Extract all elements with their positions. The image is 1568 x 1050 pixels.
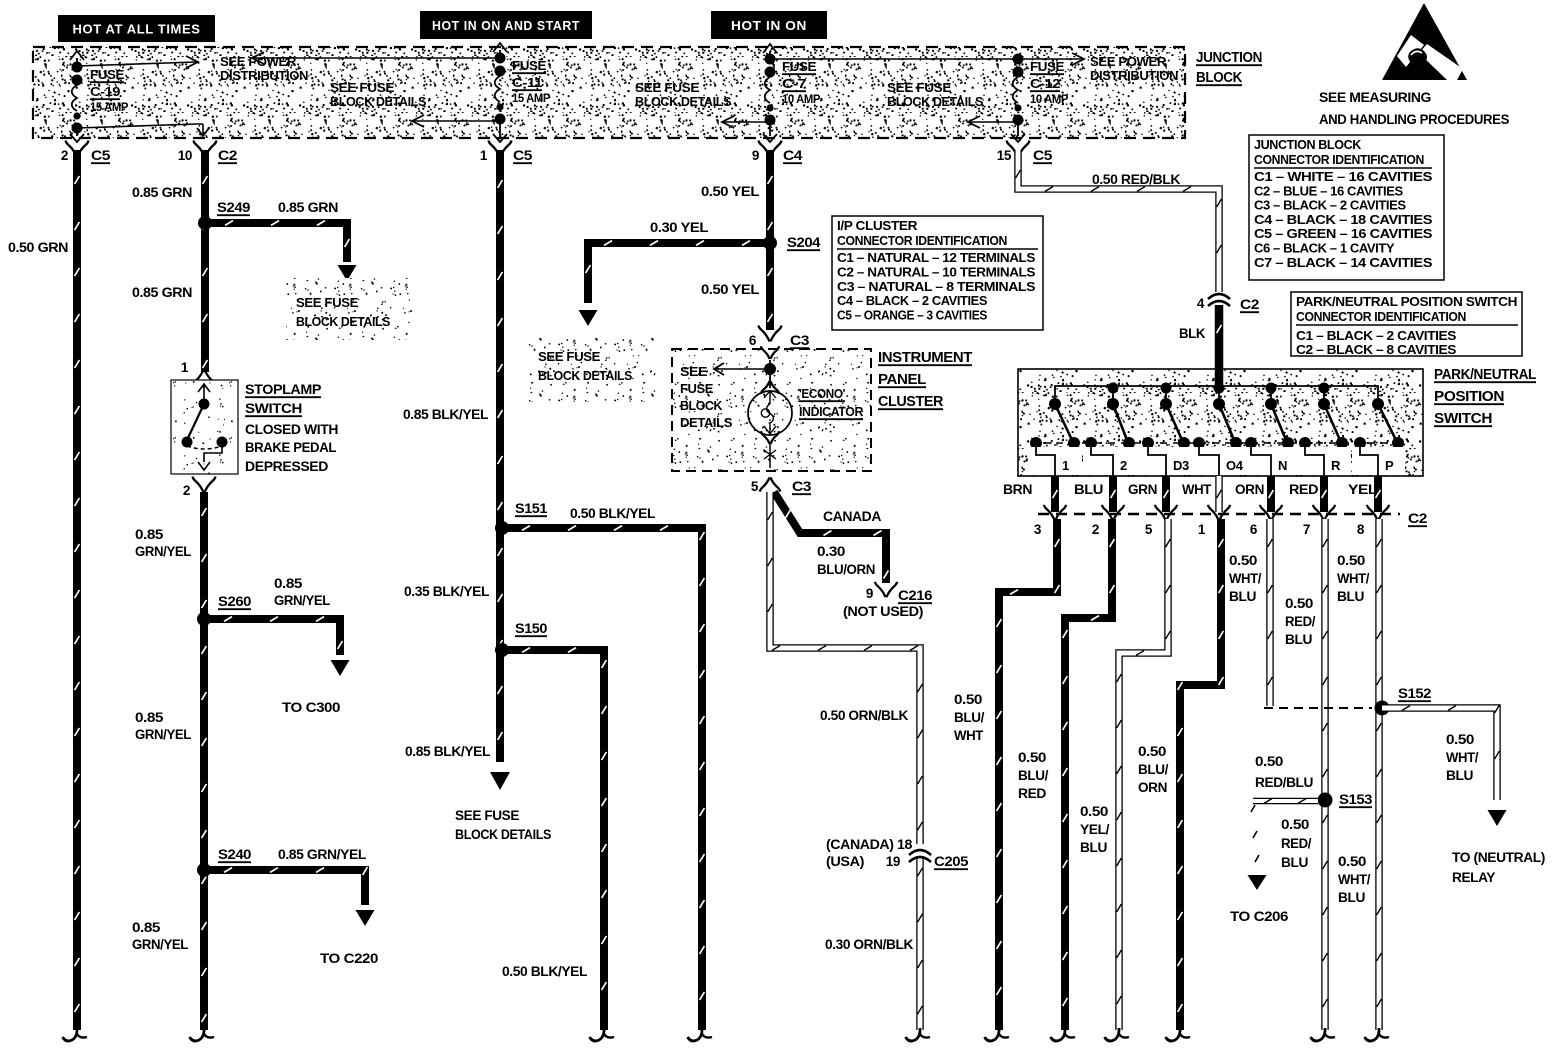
label 0.50 BLU/WHT [954,692,985,743]
wire BLU [1111,476,1116,512]
svg-text:RELAY: RELAY [1452,870,1495,885]
svg-text:1: 1 [1198,522,1206,537]
svg-text:FUSE: FUSE [90,68,124,82]
wire BLK [1217,305,1222,369]
svg-text:SEE FUSE: SEE FUSE [296,295,359,310]
connector C2 pin 7 [1303,505,1335,537]
svg-text:BLU: BLU [1080,840,1107,855]
svg-text:0.30 ORN/BLK: 0.30 ORN/BLK [825,937,914,952]
connector C2 pin 8 [1357,505,1389,537]
svg-text:I/P CLUSTER: I/P CLUSTER [837,218,918,233]
svg-text:0.85 GRN/YEL: 0.85 GRN/YEL [278,847,366,862]
svg-text:0.85: 0.85 [135,710,164,725]
svg-text:BLU: BLU [1338,890,1365,905]
svg-text:C2 – BLUE – 16 CAVITIES: C2 – BLUE – 16 CAVITIES [1254,183,1404,198]
svg-text:BLU/: BLU/ [1138,762,1169,777]
svg-text:C3 – BLACK – 2 CAVITIES: C3 – BLACK – 2 CAVITIES [1254,198,1406,213]
svg-text:10 AMP: 10 AMP [1030,94,1069,106]
svg-text:BLOCK DETAILS: BLOCK DETAILS [455,827,551,842]
svg-text:0.50: 0.50 [1338,854,1366,869]
splice S260 [197,594,251,626]
svg-text:0.50: 0.50 [1255,754,1283,769]
label 0.85 GRN (branch) [278,200,338,215]
svg-text:SEE FUSE: SEE FUSE [887,81,951,95]
svg-text:C6 – BLACK – 1 CAVITY: C6 – BLACK – 1 CAVITY [1254,241,1395,256]
svg-text:15 AMP: 15 AMP [512,93,551,105]
svg-text:CONNECTOR IDENTIFICATION: CONNECTOR IDENTIFICATION [1296,309,1466,324]
svg-text:0.50: 0.50 [1229,553,1257,568]
svg-text:C3: C3 [790,333,810,348]
svg-text:S260: S260 [218,594,251,609]
svg-text:C1 – NATURAL – 12 TERMINALS: C1 – NATURAL – 12 TERMINALS [837,250,1036,265]
label 0.85 GRN (upper) [132,185,192,200]
svg-text:1: 1 [480,148,488,163]
fuse C-12 10 AMP [1011,54,1069,143]
label BRN [1003,482,1032,497]
svg-text:C1 – BLACK – 2 CAVITIES: C1 – BLACK – 2 CAVITIES [1296,328,1457,343]
svg-text:DISTRIBUTION: DISTRIBUTION [220,69,308,83]
svg-text:RED/BLU: RED/BLU [1255,775,1313,790]
svg-text:RED: RED [1018,786,1047,801]
wire 0.85 GRN/YEL branch from S260 to C300 [204,617,350,676]
connector C5 pin 15 [997,141,1053,164]
switch position P [1352,398,1405,476]
connector C2 pin 3 [1034,505,1066,537]
label 0.50 ORN/BLK [820,708,909,723]
svg-text:C-7: C-7 [782,77,807,91]
svg-text:1: 1 [1062,458,1069,473]
wire 0.50 RED/BLK (white) from C5 pin 15 to C2 pin 4 [1016,150,1222,292]
note SEE FUSE BLOCK DETAILS (in cluster) [680,365,732,430]
svg-text:6: 6 [749,333,757,348]
svg-text:0.50 GRN: 0.50 GRN [8,240,68,255]
svg-text:0.50 BLK/YEL: 0.50 BLK/YEL [502,964,587,979]
label SEE MEASURING AND HANDLING PROCEDURES [1319,89,1509,127]
park/neutral position switch label [1434,367,1537,427]
wire 0.85 BLK/YEL (main vertical) [490,150,510,790]
svg-text:C4 – BLACK – 18 CAVITIES: C4 – BLACK – 18 CAVITIES [1254,212,1433,227]
label CANADA [823,509,882,524]
svg-text:C2 – BLACK – 8 CAVITIES: C2 – BLACK – 8 CAVITIES [1296,342,1457,357]
svg-text:TO (NEUTRAL): TO (NEUTRAL) [1452,850,1545,865]
svg-text:DISTRIBUTION: DISTRIBUTION [1090,69,1178,83]
svg-text:S204: S204 [787,235,821,250]
svg-text:15 AMP: 15 AMP [90,102,129,114]
svg-text:0.50 BLK/YEL: 0.50 BLK/YEL [570,506,655,521]
svg-text:SEE FUSE: SEE FUSE [635,81,699,95]
svg-text:C3 – NATURAL – 8 TERMINALS: C3 – NATURAL – 8 TERMINALS [837,279,1036,294]
svg-text:5: 5 [1145,522,1153,537]
label SEE FUSE BLOCK DETAILS (band, left-middle) [330,81,426,109]
svg-text:0.85 GRN: 0.85 GRN [278,200,338,215]
svg-text:0.85: 0.85 [132,920,161,935]
svg-text:O4: O4 [1226,458,1244,473]
park/neutral position switch (stippled box) [1018,369,1423,476]
splice S151 [495,501,548,535]
label 0.30 YEL [650,220,708,235]
svg-text:S150: S150 [515,621,547,636]
svg-text:'ECONO': 'ECONO' [799,386,845,401]
wire 0.50 WHT/BLU (from N, white) [1268,519,1273,706]
svg-text:C7 – BLACK – 14 CAVITIES: C7 – BLACK – 14 CAVITIES [1254,255,1433,270]
instrument panel cluster label [878,350,973,410]
svg-text:SEE FUSE: SEE FUSE [538,349,601,364]
svg-text:C5 – ORANGE – 3 CAVITIES: C5 – ORANGE – 3 CAVITIES [837,308,988,323]
switch bus rail [1055,369,1378,404]
park/neutral position switch connector identification table [1291,292,1522,357]
fuse C-11 15 AMP [493,43,551,142]
header HOT IN ON [711,11,827,39]
svg-text:0.85: 0.85 [274,576,303,591]
svg-text:BLU: BLU [1281,855,1308,870]
header HOT IN ON AND START [420,11,592,39]
svg-text:BRAKE PEDAL: BRAKE PEDAL [245,439,337,455]
wire 0.50 WHT/BLU (from P, white) [1365,519,1390,1041]
svg-text:SEE POWER: SEE POWER [1090,55,1166,69]
svg-text:HOT AT ALL TIMES: HOT AT ALL TIMES [73,22,201,37]
label 0.50 RED/BLU (R wire upper) [1285,596,1316,647]
svg-text:C2: C2 [218,148,237,163]
connector C3 pin 6 [749,326,810,349]
svg-text:BLOCK DETAILS: BLOCK DETAILS [296,314,391,329]
svg-text:BLK: BLK [1179,326,1206,341]
label 0.50 BLU/RED [1018,750,1049,801]
svg-text:SEE FUSE: SEE FUSE [455,808,519,823]
svg-text:10: 10 [178,148,192,163]
connector C2 dashed line [1038,511,1427,526]
svg-text:2: 2 [1092,522,1099,537]
svg-text:0.50: 0.50 [1138,744,1166,759]
splice S249 [198,200,250,230]
svg-text:0.85 GRN: 0.85 GRN [132,185,192,200]
connector C5 pin 2 [61,141,111,164]
svg-text:POSITION: POSITION [1434,389,1504,405]
svg-text:0.50 ORN/BLK: 0.50 ORN/BLK [820,708,909,723]
svg-text:CANADA: CANADA [823,509,882,524]
label RED [1289,482,1319,497]
wire 0.50 BLU/ORN (from O4) [1166,519,1224,1041]
label SEE POWER DISTRIBUTION (right) [1090,55,1178,83]
svg-text:C-19: C-19 [90,85,121,99]
connector C2 pin 5 [1145,505,1177,537]
wire branch from S153 to C206 [1248,799,1319,890]
svg-text:S249: S249 [217,200,250,215]
svg-text:DEPRESSED: DEPRESSED [245,458,328,474]
svg-text:BLOCK DETAILS: BLOCK DETAILS [330,95,426,109]
wire 0.50 WHT/BLU branch from S152 to neutral relay [1382,705,1507,826]
svg-text:0.50: 0.50 [1080,804,1108,819]
switch position N [1243,383,1298,477]
svg-text:CONNECTOR IDENTIFICATION: CONNECTOR IDENTIFICATION [837,233,1007,248]
svg-text:R: R [1331,458,1341,473]
svg-text:FUSE: FUSE [512,59,546,73]
svg-text:0.85 BLK/YEL: 0.85 BLK/YEL [403,407,488,422]
svg-text:FUSE: FUSE [782,60,816,74]
svg-text:JUNCTION BLOCK: JUNCTION BLOCK [1254,137,1362,152]
svg-text:S151: S151 [515,501,548,516]
wire: fuse C-19 to SEE POWER DISTRIBUTION arrow [77,56,198,68]
connector C2 pin 10 [178,141,237,164]
svg-text:BLU: BLU [1074,482,1103,497]
junction block label [1196,50,1262,86]
svg-text:C5: C5 [513,148,533,163]
svg-text:YEL/: YEL/ [1080,822,1110,837]
wire 0.50 BLK/YEL branch from S151 [502,526,712,1041]
label 0.50 BLK/YEL (S151 branch) [570,506,655,521]
wire 0.50 GRN (left vertical) [63,150,88,1041]
svg-text:SEE: SEE [680,365,707,379]
svg-text:STOPLAMP: STOPLAMP [245,381,321,397]
svg-text:BLOCK DETAILS: BLOCK DETAILS [887,95,983,109]
label 0.50 YEL (lower) [701,282,759,297]
splice S240 [197,847,251,877]
label SEE POWER DISTRIBUTION (left) [220,55,308,83]
svg-text:(NOT USED): (NOT USED) [843,604,923,619]
svg-text:CONNECTOR IDENTIFICATION: CONNECTOR IDENTIFICATION [1254,152,1424,167]
wire 0.85 GRN (upper) [203,150,208,372]
svg-text:PARK/NEUTRAL: PARK/NEUTRAL [1434,367,1537,383]
svg-text:BLU: BLU [1337,589,1364,604]
wire: fuse C-19 lower arrow to connector 10/C2 [77,124,209,136]
svg-text:0.85 GRN: 0.85 GRN [132,285,192,300]
svg-text:GRN: GRN [1128,482,1157,497]
svg-text:DETAILS: DETAILS [680,416,732,430]
svg-text:C2: C2 [1240,297,1259,312]
wire 0.85 GRN/YEL branch from S240 to C220 [204,867,375,926]
label YEL [1348,482,1377,497]
label 0.50 YEL/BLU [1080,804,1110,855]
svg-text:C4: C4 [783,148,803,163]
svg-text:7: 7 [1303,522,1310,537]
svg-text:PARK/NEUTRAL POSITION SWITCH: PARK/NEUTRAL POSITION SWITCH [1296,294,1517,309]
connector C2 pin 2 [1092,505,1124,537]
wire: fuse C-11 to SEE POWER DISTRIBUTION (arrow left) [252,52,500,64]
cluster exit connector symbol [761,431,779,468]
label 0.30 BLU/ORN [817,544,875,577]
wire: fuse C-7 / C-12 to SEE POWER DISTRIBUTION (arrow right) [770,53,1084,65]
svg-text:WHT/: WHT/ [1338,872,1371,887]
wire branch from S150 [502,648,614,1041]
ECONO indicator lamp [748,381,792,435]
connector C2 pin 6 [1250,505,1282,537]
connector C2 pin 4 [1197,294,1259,312]
svg-text:C2 – NATURAL – 10 TERMINALS: C2 – NATURAL – 10 TERMINALS [837,264,1036,279]
svg-text:0.50: 0.50 [1285,596,1313,611]
stoplamp switch [171,380,238,474]
I/P cluster connector identification table [832,216,1043,330]
label TO C206 [1230,909,1289,924]
svg-text:ORN: ORN [1235,482,1264,497]
label BLK [1179,326,1206,341]
svg-text:BLOCK DETAILS: BLOCK DETAILS [635,95,731,109]
switch position 2 [1083,383,1140,477]
stoplamp switch pin 1 [181,360,216,386]
svg-text:BLU/: BLU/ [1018,768,1049,783]
svg-text:BLOCK: BLOCK [680,399,722,413]
svg-text:SWITCH: SWITCH [245,400,302,416]
svg-text:HOT IN ON AND START: HOT IN ON AND START [432,18,580,33]
svg-text:C5: C5 [1033,148,1053,163]
connector C216 pin 9 (NOT USED) [843,586,933,619]
svg-text:C2: C2 [1408,511,1427,526]
svg-text:BLOCK: BLOCK [1196,70,1243,86]
wire: fuse C-11 lower arrow left [412,115,500,127]
ESD warning triangle [1382,3,1467,80]
stoplamp switch label [245,381,338,474]
svg-text:S152: S152 [1398,686,1431,701]
svg-text:GRN/YEL: GRN/YEL [274,593,330,608]
svg-text:(USA): (USA) [826,854,864,869]
svg-text:ORN: ORN [1138,780,1167,795]
wire: fuse C-12 lower arrow left [968,116,1018,128]
wire BRN [1053,476,1058,512]
svg-text:6: 6 [1250,522,1258,537]
svg-text:FUSE: FUSE [1030,60,1064,74]
svg-text:BLU: BLU [1446,768,1473,783]
connector C2 pin 1 [1198,505,1230,537]
svg-text:C-12: C-12 [1030,77,1061,91]
svg-text:19: 19 [886,854,900,869]
arrow to SEE FUSE BLOCK DETAILS (in cluster) [714,363,768,375]
svg-text:C4 – BLACK – 2 CAVITIES: C4 – BLACK – 2 CAVITIES [837,293,988,308]
wire 0.50 YEL/BLU (white) [1105,519,1171,1041]
header HOT AT ALL TIMES [58,15,215,42]
svg-text:BLU/ORN: BLU/ORN [817,562,875,577]
wire 0.50 BLU/WHT [985,519,1060,1041]
junction block (dashed stippled band) [33,47,1185,138]
svg-text:(CANADA) 18: (CANADA) 18 [826,837,913,852]
label 0.85 GRN/YEL (1) [135,527,191,559]
fuse C-19 15 AMP [70,51,129,142]
svg-text:0.85: 0.85 [135,527,164,542]
label GRN [1128,482,1157,497]
label TO C220 [320,951,378,966]
label 0.50 WHT/BLU (P wire) [1337,553,1370,604]
svg-text:BLU: BLU [1229,589,1256,604]
wire 0.50 RED/BLU (from R, white) [1311,519,1336,1041]
svg-text:C5 – GREEN – 16 CAVITIES: C5 – GREEN – 16 CAVITIES [1254,226,1433,241]
switch position R [1297,383,1351,477]
svg-text:WHT: WHT [1182,482,1212,497]
svg-text:10 AMP: 10 AMP [782,94,821,106]
svg-text:15: 15 [997,148,1012,163]
svg-text:0.50 YEL: 0.50 YEL [701,282,759,297]
svg-text:GRN/YEL: GRN/YEL [135,727,191,742]
connector C5 pin 1 [480,141,533,164]
wire ORN [1269,476,1274,512]
svg-text:C5: C5 [91,148,111,163]
svg-text:YEL: YEL [1348,482,1377,497]
label 0.50 BLK/YEL (bottom) [502,964,587,979]
svg-text:S153: S153 [1339,792,1373,807]
splice S153 [1318,792,1373,808]
label 0.50 WHT/BLU (N wire) [1229,553,1262,604]
label 0.50 WHT/BLU (S152 branch) [1446,732,1479,783]
connector C4 pin 9 [752,141,803,164]
svg-text:9: 9 [866,586,873,601]
splice S152 [1264,686,1431,716]
label 0.50 RED/BLU (below S153) [1281,817,1312,870]
instrument panel cluster (dashed box) [672,349,871,471]
label SEE FUSE BLOCK DETAILS (band, center-right) [887,81,983,109]
svg-text:INSTRUMENT: INSTRUMENT [878,350,973,366]
svg-text:SWITCH: SWITCH [1434,411,1492,427]
note SEE FUSE BLOCK DETAILS (stippled, upper-left) [286,278,412,340]
label 0.85 GRN/YEL (3) [132,920,188,952]
svg-text:TO C206: TO C206 [1230,909,1289,924]
svg-text:AND HANDLING PROCEDURES: AND HANDLING PROCEDURES [1319,111,1509,127]
svg-text:WHT/: WHT/ [1337,571,1370,586]
label 0.30 ORN/BLK [825,937,914,952]
svg-text:4: 4 [1197,296,1205,311]
svg-text:JUNCTION: JUNCTION [1196,50,1262,66]
label WHT [1182,482,1212,497]
svg-text:2: 2 [61,148,68,163]
svg-text:BLU: BLU [1285,632,1312,647]
wire 0.30 YEL branch from S204 [579,241,771,326]
svg-text:0.50: 0.50 [1446,732,1474,747]
label 0.35 BLK/YEL [404,584,489,599]
label SEE FUSE BLOCK DETAILS (band, center-left) [635,81,731,109]
svg-text:WHT/: WHT/ [1446,750,1479,765]
fuse C-7 10 AMP [763,44,821,142]
svg-text:BRN: BRN [1003,482,1032,497]
wire 0.50 BLU/RED [1051,519,1115,1041]
label 0.85 GRN/YEL (branch S240) [278,847,366,862]
svg-text:0.50 RED/BLK: 0.50 RED/BLK [1092,172,1181,187]
svg-text:SEE MEASURING: SEE MEASURING [1319,89,1432,105]
svg-text:C3: C3 [792,479,812,494]
wire 0.85 GRN branch from S249 to fuse block arrow [205,221,357,281]
svg-text:CLOSED WITH: CLOSED WITH [245,421,338,437]
cluster internal wire and splice [761,346,779,388]
svg-text:8: 8 [1357,522,1365,537]
wire WHT [1217,476,1222,512]
svg-text:0.35 BLK/YEL: 0.35 BLK/YEL [404,584,489,599]
svg-text:0.50: 0.50 [1337,553,1365,568]
ECONO indicator label [799,386,864,419]
wire: fuse C-7 lower arrow left [722,116,770,128]
svg-text:RED/: RED/ [1281,836,1312,851]
note SEE FUSE BLOCK DETAILS (below arrow) [455,808,551,842]
label 0.50 GRN [8,240,68,255]
svg-text:HOT IN ON: HOT IN ON [731,18,807,33]
wire 0.30 BLU/ORN (CANADA branch) to C216 [774,492,897,597]
svg-text:0.30 YEL: 0.30 YEL [650,220,708,235]
svg-text:P: P [1385,458,1394,473]
wire 0.85 GRN/YEL (below stoplamp) [190,492,215,1041]
wire GRN [1164,476,1169,512]
switch position 1 [1028,398,1082,476]
svg-text:S240: S240 [218,847,251,862]
svg-text:SEE FUSE: SEE FUSE [330,81,394,95]
svg-text:INDICATOR: INDICATOR [799,404,864,419]
svg-text:2: 2 [1120,458,1127,473]
label 0.85 BLK/YEL (upper) [403,407,488,422]
svg-text:0.50: 0.50 [1018,750,1046,765]
svg-text:WHT: WHT [954,728,984,743]
label 0.85 BLK/YEL (lower) [405,744,490,759]
svg-text:C-11: C-11 [512,76,543,90]
svg-text:BLU/: BLU/ [954,710,985,725]
svg-text:N: N [1278,458,1287,473]
splice S204 [763,235,821,250]
label TO (NEUTRAL) RELAY [1452,850,1545,885]
svg-text:TO C220: TO C220 [320,951,378,966]
label 0.50 WHT/BLU (w8 lower) [1338,854,1371,905]
label 0.85 GRN/YEL (2) [135,710,191,742]
note SEE FUSE BLOCK DETAILS (stippled, center) [528,338,656,402]
